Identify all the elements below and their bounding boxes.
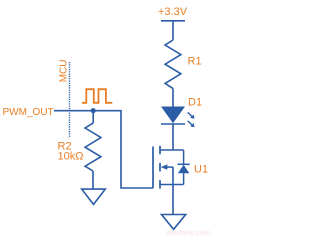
wire R2 to ground bbox=[92, 171, 94, 189]
wire rail to R1 bbox=[172, 21, 174, 40]
svg-text:+3.3V: +3.3V bbox=[158, 6, 188, 18]
LED D1 triangle bbox=[161, 107, 185, 124]
transistor U1 source vertical link bbox=[172, 167, 174, 184]
ground (right) bbox=[162, 215, 186, 230]
svg-text:10kΩ: 10kΩ bbox=[58, 151, 84, 163]
LED D1 cathode bar bbox=[161, 123, 185, 125]
MCU boundary dotted line bbox=[69, 62, 71, 138]
body diode cathode bar bbox=[178, 163, 190, 165]
svg-text:elecfans.com: elecfans.com bbox=[166, 228, 210, 237]
wire junction to R2 bbox=[92, 111, 94, 124]
svg-text:PWM_OUT: PWM_OUT bbox=[3, 107, 54, 118]
transistor U1 NMOS: drain horizontal bbox=[160, 149, 184, 151]
wire D1 to drain bbox=[172, 124, 174, 150]
body diode wire bottom bbox=[183, 173, 185, 184]
resistor R2 bbox=[85, 123, 101, 171]
transistor U1 gate bar bbox=[152, 147, 154, 189]
wire PWM_OUT to gate corner bbox=[54, 111, 153, 188]
body diode triangle bbox=[178, 165, 189, 174]
svg-text:D1: D1 bbox=[188, 97, 202, 109]
svg-text:R1: R1 bbox=[188, 56, 202, 68]
LED D1 light emission arrows bbox=[188, 112, 195, 127]
power rail +3.3V bar symbol bbox=[161, 20, 185, 22]
transistor U1 body arrow bbox=[167, 166, 174, 168]
wire source to ground bbox=[172, 185, 174, 215]
resistor R1 bbox=[165, 40, 181, 89]
junction node dot bbox=[91, 108, 96, 113]
svg-text:U1: U1 bbox=[194, 163, 208, 175]
wire R1 to D1 bbox=[172, 89, 174, 107]
transistor U1 source horizontal bbox=[160, 184, 184, 186]
PWM waveform icon bbox=[82, 89, 112, 103]
ground (left, MCU side) bbox=[82, 189, 106, 204]
transistor U1 channel segments bbox=[159, 146, 161, 189]
svg-text:MCU: MCU bbox=[58, 60, 69, 83]
body diode wire top bbox=[183, 150, 185, 164]
